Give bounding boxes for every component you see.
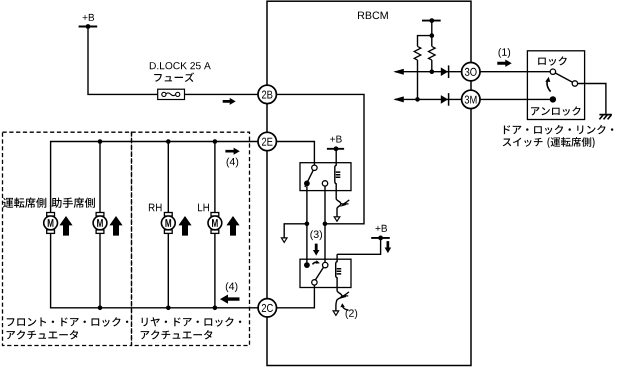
relay K2 blade — [315, 267, 323, 280]
relay K1 lock relay box — [300, 163, 351, 191]
wire 2E to actuators (top bus) — [51, 142, 258, 213]
label unlock position — [531, 106, 581, 115]
ground (link switch, chassis) — [599, 115, 612, 120]
arrowhead 3M line — [393, 96, 404, 102]
ground (Q1 emitter) — [334, 217, 340, 222]
wire unlock relay to connector 2C — [277, 285, 315, 308]
connector 2C — [258, 299, 276, 317]
wire 2B feed to relay contacts — [276, 94, 364, 223]
wire rail to resistors — [418, 21, 432, 47]
label (1) flow arrow — [497, 48, 511, 67]
label (3) flow — [310, 230, 322, 255]
relay K2 unlock relay box — [300, 259, 351, 287]
relay K2 contact common — [304, 262, 310, 268]
label driver side — [3, 198, 46, 208]
power rail bar (pull-up) — [422, 18, 441, 23]
relay K1 contact common — [304, 181, 310, 187]
wire switch to ground — [577, 84, 606, 114]
ground (relay common) — [281, 238, 287, 243]
relay K1 contact NC (to 2B feed) — [322, 181, 327, 186]
switch S1 pole contact — [572, 81, 577, 86]
wire relay commons to ground tee — [306, 186, 308, 265]
label passenger side — [52, 198, 95, 208]
wire 3O sense line — [395, 71, 462, 73]
relay K2 contact NO (to 2B feed) — [323, 262, 328, 267]
wire +B to unlock coil — [337, 238, 381, 254]
current direction arrow into 2B — [223, 98, 236, 105]
flow arrow motor M1 — [59, 216, 72, 236]
label RH — [149, 204, 162, 212]
flow arrow motor M2 — [109, 216, 122, 236]
power +B (unlock relay coil) — [371, 225, 390, 241]
wire R1 to 3M line — [417, 60, 419, 99]
switch S1 action arrow — [545, 77, 550, 92]
wire to ground (relay common) — [284, 224, 307, 238]
label LH — [198, 204, 209, 212]
transistor Q1 (lock relay driver) — [336, 199, 349, 217]
flow arrow motor M4 — [226, 216, 239, 236]
relay K2 contact to 2C — [312, 280, 317, 285]
junction node R2/3O — [430, 69, 435, 74]
transistor Q2 (unlock relay driver) — [336, 291, 349, 311]
switch S1 blade — [555, 73, 572, 82]
motor M3 (RH rear) — [161, 213, 175, 234]
junction node relay contact feed — [323, 222, 328, 227]
junction node ground tee — [305, 222, 310, 227]
switch S1 lock contact — [550, 69, 555, 74]
arrowhead 3O line — [393, 69, 404, 75]
label (4) flow bottom — [220, 282, 240, 304]
wire actuators to 2C (bottom bus) — [51, 233, 259, 307]
diode D2 (3M) — [441, 93, 449, 106]
wire 3M sense line — [395, 98, 462, 100]
label D.LOCK 25 A fuse — [150, 62, 211, 82]
connector 3M — [462, 90, 480, 108]
caption door lock link switch — [503, 125, 614, 148]
switch S1 door lock link switch box — [527, 51, 584, 120]
resistor R1 (pull-up 3M) — [414, 46, 421, 60]
flow arrow motor M3 — [178, 216, 191, 236]
wire fuse to connector 2B — [185, 93, 259, 95]
relay K2 coil L2 — [336, 254, 342, 290]
junction node resistor tap — [430, 33, 435, 38]
relay K1 blade — [305, 170, 313, 187]
wire relay feed bus — [324, 186, 326, 262]
relay K1 coil L1 — [335, 149, 341, 199]
relay K1 contact NO (to 2E) — [312, 165, 317, 170]
wire motor M4 branch — [213, 139, 218, 310]
motor M2 (passenger door) — [93, 213, 107, 234]
wire 3M to link switch — [480, 98, 553, 100]
connector 2B — [258, 85, 276, 103]
wire 2E to lock relay contact — [276, 142, 314, 166]
caption front door lock actuator — [7, 317, 129, 339]
junction node R1/3M — [415, 97, 420, 102]
switch S1 unlock contact node — [550, 96, 556, 102]
wire 3O to link switch — [480, 71, 550, 73]
label (2) action arrow — [340, 303, 357, 319]
caption rear door lock actuator — [141, 317, 242, 339]
power +B (battery feed, top left) — [79, 14, 98, 29]
fuse D.LOCK 25A — [158, 89, 185, 99]
flow arrow at +B (unlock) — [385, 241, 392, 253]
front door lock actuator box (dashed) — [3, 132, 132, 345]
connector 2E — [258, 132, 276, 150]
wire R2 to 3O line — [431, 60, 433, 72]
diode D1 (3O) — [441, 65, 449, 78]
connector 3O — [462, 62, 480, 80]
motor M1 (driver door) — [44, 213, 58, 234]
resistor R2 (pull-up 3O) — [428, 46, 435, 60]
wire motor M3 branch — [166, 139, 171, 310]
relay K2 action arrow — [313, 260, 320, 264]
wire motor M2 branch — [98, 139, 103, 310]
motor M4 (LH rear) — [208, 213, 222, 234]
wire +B to fuse — [88, 27, 158, 95]
power +B (lock relay coil) — [327, 136, 344, 152]
label lock position — [538, 56, 567, 65]
ground (Q2 emitter) — [333, 311, 339, 316]
module box RBCM — [267, 1, 471, 365]
label (4) flow top — [225, 148, 239, 168]
rear door lock actuator box (dashed) — [132, 132, 250, 345]
